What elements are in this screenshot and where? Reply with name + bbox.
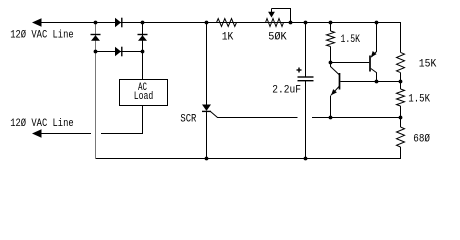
wire Q1 emitter from top rail — [371, 23, 376, 58]
diode D3 left vertical (points up) — [91, 35, 101, 41]
resistor 1.5K right column — [397, 89, 405, 106]
transistor Q2 NPN base bar — [339, 73, 341, 90]
wire Q1 collector to Q2 base node — [371, 69, 377, 82]
AC Load box — [120, 80, 168, 106]
svg-text:SCR: SCR — [180, 114, 196, 126]
svg-text:5ØK: 5ØK — [268, 32, 287, 44]
svg-text:12Ø VAC Line: 12Ø VAC Line — [10, 30, 73, 42]
wire capacitor top lead — [305, 23, 307, 78]
50K wiper arrow — [268, 12, 275, 18]
svg-text:15K: 15K — [419, 58, 437, 70]
diode D1 top bridge (points right) — [115, 18, 122, 28]
junction dots gate line — [329, 116, 333, 120]
wire left bridge leg (vertical, crosses lower line) — [95, 23, 97, 159]
wire gate line right segment to divider — [312, 117, 401, 119]
wire Q2 emitter to gate node — [331, 86, 340, 118]
svg-text:68Ø: 68Ø — [413, 134, 430, 146]
wire 1.5K right bottom lead — [400, 106, 402, 127]
resistor 1.5K upper (x331) — [327, 31, 335, 47]
svg-text:2.2uF: 2.2uF — [272, 85, 301, 97]
wire SCR anode column — [206, 23, 208, 105]
diode D4 right vertical (points up) — [138, 35, 148, 41]
resistor 1K — [217, 19, 237, 27]
wire load box bottom to lower VAC line — [101, 106, 143, 134]
junction dots Q2 base wire — [375, 80, 379, 84]
wire SCR cathode to bottom rail — [206, 111, 208, 158]
junction dots bottom rail — [205, 157, 209, 161]
wire Q2 base to divider — [340, 81, 400, 83]
transistor Q2 emitter arrow (out of bar) — [331, 89, 337, 95]
arrow 120 VAC lower line — [32, 129, 42, 137]
junction dots bridge lower wire — [94, 50, 98, 54]
svg-text:1.5K: 1.5K — [341, 34, 361, 46]
wire lower VAC line (hops left bridge leg) — [40, 133, 91, 135]
wire SCR gate line (hops capacitor lead) — [211, 112, 298, 118]
svg-text:Load: Load — [134, 91, 154, 103]
transistor Q1 PNP base bar — [369, 56, 371, 72]
wire 1.5K left top lead — [330, 23, 332, 32]
junction dots top rail — [94, 21, 98, 25]
wire top rail (120 VAC top line to right column corner) — [40, 23, 401, 53]
SCR thyristor symbol — [202, 105, 211, 112]
wire capacitor bottom lead to bottom rail — [305, 81, 307, 159]
junction dot node A — [329, 61, 333, 65]
wire right bridge leg down to load box — [142, 23, 144, 80]
wire 15K bottom lead — [400, 73, 402, 89]
arrow 120 VAC top line — [32, 18, 42, 26]
wire 50K wiper return — [272, 9, 291, 23]
wire node A lead / Q2 collector — [331, 47, 340, 76]
svg-text:12Ø VAC Line: 12Ø VAC Line — [10, 118, 73, 130]
wire bridge lower horizontal — [96, 51, 143, 53]
wire bottom rail — [96, 147, 401, 159]
capacitor polarity plus sign — [297, 68, 302, 73]
transistor Q1 emitter arrow (into bar) — [371, 51, 377, 57]
capacitor C1 2.2uF plates — [298, 77, 314, 81]
svg-text:1.5K: 1.5K — [408, 94, 430, 106]
resistor 15K — [397, 52, 405, 72]
diode D2 bridge lower horizontal (points right) — [115, 47, 122, 57]
resistor 50K potentiometer body — [266, 19, 284, 27]
wire Q1 base from node A — [331, 62, 370, 64]
svg-text:1K: 1K — [222, 32, 234, 44]
resistor 680 — [397, 127, 405, 147]
